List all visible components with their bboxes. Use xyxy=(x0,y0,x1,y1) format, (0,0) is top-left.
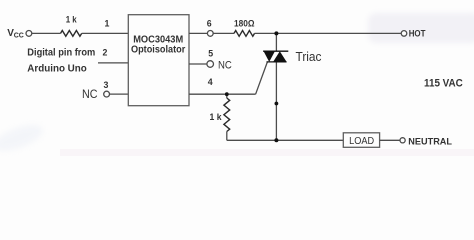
wire pin 6 stub xyxy=(189,32,207,34)
component LOAD box xyxy=(343,133,379,148)
svg-text:1 k: 1 k xyxy=(66,15,78,25)
svg-text:LOAD: LOAD xyxy=(349,135,374,147)
resistor R3 1k (gate) vertical xyxy=(224,98,230,132)
svg-text:NEUTRAL: NEUTRAL xyxy=(408,136,452,147)
wire pin 5 stub xyxy=(189,63,207,65)
wire pin 2 stub xyxy=(98,62,128,64)
junction dot bottom rail xyxy=(274,138,278,142)
svg-text:1: 1 xyxy=(105,18,110,28)
wire bottom rail to LOAD xyxy=(227,139,343,141)
wire R1 to pin 1 xyxy=(82,32,129,34)
background tint bottom band xyxy=(60,149,474,156)
background tint top-right xyxy=(368,13,474,43)
svg-text:3: 3 xyxy=(104,80,109,90)
svg-text:Digital pin from: Digital pin from xyxy=(27,47,95,59)
wire Vcc to R1 xyxy=(32,32,61,34)
node Vcc terminal circle xyxy=(26,31,32,37)
label Vcc xyxy=(7,28,24,40)
node HOT terminal circle xyxy=(401,31,407,37)
wire pin 3 stub xyxy=(110,93,129,95)
svg-text:6: 6 xyxy=(207,19,212,29)
junction dot mid rail xyxy=(275,102,279,106)
wire triac MT1 vertical down xyxy=(275,62,277,140)
node pin 6 terminal circle xyxy=(207,31,213,37)
svg-text:1 k: 1 k xyxy=(210,112,223,122)
svg-text:4: 4 xyxy=(208,77,213,87)
svg-text:Optoisolator: Optoisolator xyxy=(131,43,185,55)
svg-text:Arduino Uno: Arduino Uno xyxy=(27,63,87,75)
svg-text:115 VAC: 115 VAC xyxy=(424,78,463,90)
svg-text:180Ω: 180Ω xyxy=(234,19,255,29)
resistor R2 180ohm xyxy=(234,31,255,37)
triac Q1 symbol xyxy=(263,51,288,63)
op-amp U1 MOC3043M box xyxy=(128,15,189,106)
wire triac gate diagonal xyxy=(256,62,268,94)
wire 1k gate resistor bottom lead xyxy=(226,132,228,141)
wire LOAD to NEUTRAL xyxy=(380,139,400,141)
background tint bottom-left streak xyxy=(0,120,46,157)
svg-text:2: 2 xyxy=(103,47,108,57)
wire R2 to HOT xyxy=(255,32,402,34)
node NC terminal pin 3 xyxy=(104,91,110,97)
svg-text:NC: NC xyxy=(218,60,232,72)
svg-text:NC: NC xyxy=(82,87,98,101)
svg-text:HOT: HOT xyxy=(409,28,426,39)
svg-text:CC: CC xyxy=(14,33,24,40)
wire pin 4 horizontal xyxy=(189,93,256,95)
junction dot top rail xyxy=(274,31,278,35)
junction dot pin4 / 1k xyxy=(225,92,229,96)
node pin 5 terminal circle xyxy=(207,61,214,68)
node NEUTRAL terminal circle xyxy=(400,138,405,143)
wire pin6 to R2 xyxy=(213,32,234,34)
wire triac MT2 vertical xyxy=(275,33,277,51)
resistor R 1k (input) xyxy=(61,31,82,37)
svg-text:5: 5 xyxy=(208,49,213,59)
svg-text:Triac: Triac xyxy=(296,49,322,64)
wire 1k gate resistor top lead xyxy=(226,94,228,98)
